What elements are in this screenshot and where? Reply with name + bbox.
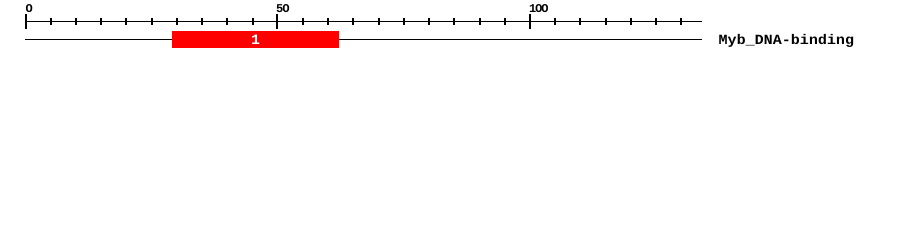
ruler line [25,21,702,22]
svg-text:O: O [26,2,33,16]
minor ticks [50,18,52,25]
sequence line [25,39,702,40]
protein domain graphic [0,0,900,58]
svg-text:1: 1 [251,33,260,49]
svg-text:1OO: 1OO [529,2,549,16]
svg-text:5O: 5O [276,2,290,16]
svg-text:Myb_DNA-binding: Myb_DNA-binding [719,33,855,49]
major tick 100 [529,14,531,29]
major tick 50 [276,14,278,29]
background [0,0,900,58]
domain box Myb_DNA-binding match 1 [172,31,339,48]
major tick 0 [25,14,27,29]
